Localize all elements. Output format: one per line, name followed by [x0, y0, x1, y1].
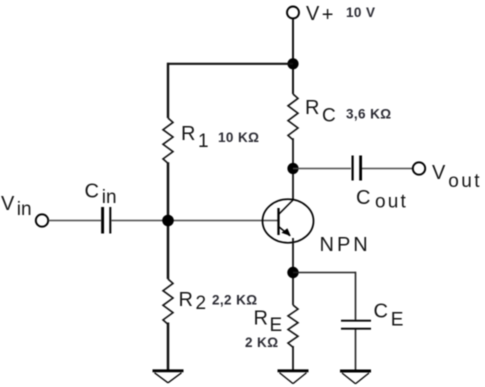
- svg-text:R: R: [179, 289, 193, 311]
- svg-text:10 KΩ: 10 KΩ: [218, 130, 259, 145]
- terminal Vin: [36, 214, 48, 226]
- svg-text:2,2 KΩ: 2,2 KΩ: [212, 293, 258, 308]
- wire RC to collector: [292, 138, 294, 200]
- svg-text:E: E: [270, 315, 283, 336]
- node emitter junction: [287, 267, 298, 278]
- resistor RC: [288, 94, 298, 140]
- terminal Vout: [413, 162, 425, 174]
- svg-text:E: E: [391, 309, 404, 330]
- node collector junction: [287, 163, 298, 174]
- node base junction: [162, 215, 174, 227]
- wire CE top: [355, 272, 357, 320]
- resistor R1: [163, 118, 173, 163]
- transistor emitter lead: [279, 227, 291, 236]
- svg-text:+: +: [322, 4, 334, 26]
- resistor R2: [163, 279, 173, 324]
- wire emitter to CE: [293, 272, 356, 274]
- svg-text:out: out: [448, 171, 482, 192]
- svg-text:NPN: NPN: [320, 234, 371, 256]
- ground middle: [278, 371, 309, 384]
- svg-text:V: V: [1, 193, 15, 215]
- svg-text:2 KΩ: 2 KΩ: [245, 335, 278, 350]
- transistor Q1 circle: [263, 199, 314, 243]
- wire emitter down: [292, 238, 294, 305]
- wire V+ down to junction: [292, 19, 294, 94]
- node junction top: [287, 58, 298, 69]
- ground right: [340, 371, 371, 384]
- wire Cin to base: [112, 220, 279, 222]
- resistor RE: [288, 305, 298, 347]
- wire R1 to base node: [167, 162, 170, 279]
- svg-text:R: R: [254, 308, 268, 330]
- wire top horizontal: [167, 63, 293, 65]
- svg-text:10 V: 10 V: [346, 5, 375, 20]
- emitter arrowhead: [281, 228, 290, 236]
- svg-text:C: C: [356, 187, 370, 209]
- svg-text:2: 2: [196, 293, 207, 314]
- svg-text:C: C: [85, 180, 99, 202]
- terminal V+: [287, 7, 299, 19]
- svg-text:1: 1: [198, 131, 209, 152]
- wire Cout to Vout: [362, 168, 413, 170]
- wire left vertical above R1: [167, 63, 169, 118]
- wire out to Cout: [293, 168, 351, 170]
- transistor collector lead: [279, 200, 294, 215]
- svg-text:3,6 KΩ: 3,6 KΩ: [346, 106, 392, 121]
- svg-text:C: C: [374, 301, 388, 323]
- wire R2 to ground: [167, 323, 170, 371]
- svg-text:in: in: [102, 187, 117, 208]
- svg-text:V: V: [306, 3, 320, 25]
- svg-text:out: out: [375, 192, 408, 213]
- ground left: [153, 371, 184, 383]
- svg-text:R: R: [305, 97, 319, 119]
- svg-text:V: V: [432, 162, 446, 184]
- wire RE to ground: [292, 346, 294, 371]
- capacitor Cin: [101, 207, 104, 234]
- capacitor Cout: [352, 156, 354, 181]
- wire CE bottom: [355, 330, 357, 372]
- svg-text:R: R: [181, 123, 195, 145]
- wire Vin to Cin: [49, 220, 102, 222]
- svg-text:in: in: [17, 199, 32, 220]
- capacitor CE: [341, 320, 371, 322]
- transistor base bar: [277, 208, 279, 235]
- svg-text:C: C: [322, 106, 336, 127]
